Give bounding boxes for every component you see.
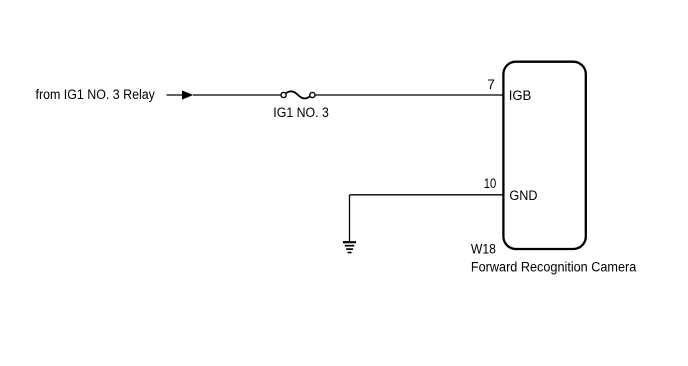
svg-text:Forward Recognition Camera: Forward Recognition Camera <box>471 259 637 274</box>
ground symbol <box>343 242 356 252</box>
wire: fuse to pin 7 of W18 <box>315 94 503 96</box>
wire: stub before arrow <box>167 94 184 96</box>
svg-text:W18: W18 <box>471 241 496 256</box>
svg-text:7: 7 <box>487 77 495 92</box>
svg-text:GND: GND <box>509 188 537 203</box>
svg-text:from IG1 NO. 3 Relay: from IG1 NO. 3 Relay <box>36 87 156 102</box>
svg-text:10: 10 <box>484 176 497 191</box>
arrow: signal direction <box>182 90 193 99</box>
wire: ground riser to pin 10 of W18 <box>350 194 504 196</box>
fuse IG1 NO. 3: left terminal circle <box>281 92 286 97</box>
svg-text:IGB: IGB <box>509 88 532 103</box>
svg-text:IG1 NO. 3: IG1 NO. 3 <box>273 105 329 120</box>
fuse IG1 NO. 3: element squiggle <box>286 91 310 98</box>
wire: vertical drop to ground <box>349 195 351 242</box>
wire: arrow to fuse <box>193 94 281 96</box>
fuse IG1 NO. 3: right terminal circle <box>310 92 315 97</box>
component W18 Forward Recognition Camera: body <box>503 62 585 249</box>
